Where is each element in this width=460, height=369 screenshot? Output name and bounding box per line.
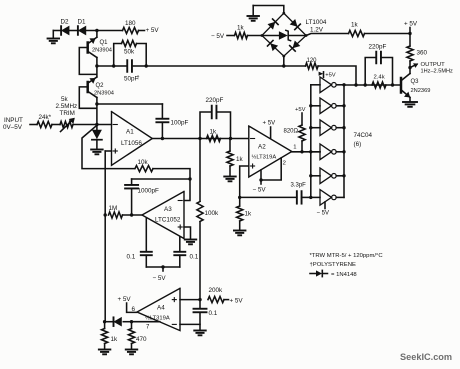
- svg-text:2N2369: 2N2369: [411, 88, 431, 94]
- ground (top-left clamp): [48, 31, 60, 44]
- wire: D1 to node A (Q1 emitter / 180 ohm): [86, 30, 123, 32]
- op-amp A4 1/2 LT319A: [137, 288, 180, 330]
- resistor 120 (from bridge bottom): [284, 58, 356, 85]
- resistor 180: [123, 20, 139, 34]
- svg-text:0.1: 0.1: [127, 254, 136, 261]
- junction dots at bridge corners: [261, 12, 308, 58]
- label -5V (A3 supply): [153, 275, 167, 282]
- junction: input rail row 5: [309, 174, 312, 177]
- junction: inverter input rail bottom: [309, 196, 312, 199]
- ground at clamp diode: [91, 150, 103, 155]
- wire: A3 V- decoupling left leg: [145, 218, 147, 252]
- diode D1: [78, 19, 87, 35]
- svg-text:+5V: +5V: [325, 72, 336, 78]
- wire: 74C04 output rail: [343, 85, 345, 198]
- wire + label: +5V to A2 V+ pin: [263, 119, 277, 138]
- junction: 1k right / 1k-to-ground: [229, 137, 232, 140]
- wire + label: +5V at 200k: [224, 298, 243, 305]
- svg-text:½LT319A: ½LT319A: [252, 154, 277, 161]
- wire: feedback loop from summing node down-left: [82, 125, 135, 168]
- junction: output rail row 4: [342, 150, 345, 153]
- svg-text:(6): (6): [354, 141, 362, 148]
- note: TRW resistor: [310, 253, 384, 259]
- svg-text:SeekIC.com: SeekIC.com: [400, 352, 452, 362]
- ground below 470: [126, 350, 138, 355]
- bridge diode (bottom-right, 1N4148): [290, 41, 301, 52]
- junction: A3 inverting node: [188, 177, 191, 180]
- label -5V (bridge): [211, 33, 225, 40]
- inverter U1f 74C04 gate 6: [311, 190, 344, 206]
- junction at 50k/50pF right: [145, 64, 148, 67]
- junction: threshold node: [198, 298, 201, 301]
- svg-text:+ 5V: + 5V: [404, 21, 418, 28]
- junction: pin2/-5V: [259, 178, 262, 181]
- svg-text:+ 5V: + 5V: [146, 27, 160, 34]
- svg-text:820Ω: 820Ω: [284, 129, 299, 135]
- svg-text:200k: 200k: [209, 287, 224, 294]
- wire: A3 non-inverting input to ground: [184, 227, 191, 239]
- svg-text:50k: 50k: [124, 49, 135, 56]
- wire: input line: [30, 124, 37, 126]
- svg-text:D2: D2: [61, 19, 70, 26]
- ground below 1k: [99, 350, 111, 355]
- svg-text:10k: 10k: [138, 159, 149, 166]
- svg-text:− 5V: − 5V: [317, 210, 330, 216]
- svg-text:INPUT: INPUT: [4, 117, 23, 124]
- svg-text:1k: 1k: [351, 22, 359, 29]
- wire: 24k to 5k trim: [52, 124, 60, 126]
- svg-text:1.2V: 1.2V: [310, 26, 324, 33]
- resistor 1k (feedback rail load): [102, 322, 119, 349]
- resistor 200k: [208, 287, 224, 303]
- junction: A3 output / 1000pF: [130, 213, 133, 216]
- svg-text:2N3904: 2N3904: [92, 48, 112, 54]
- wire: A4 + input to threshold node: [180, 299, 200, 301]
- wire: +5V rail top right: [306, 34, 348, 36]
- svg-text:74C04: 74C04: [354, 132, 373, 139]
- svg-text:†: †: [137, 75, 140, 81]
- svg-text:1000pF: 1000pF: [138, 188, 160, 195]
- svg-text:− 5V: − 5V: [153, 275, 167, 282]
- resistor 100k (A1 output to A4 threshold): [197, 139, 219, 300]
- svg-text:180: 180: [125, 20, 136, 27]
- junction: 220pF left: [364, 83, 367, 86]
- transistor Q2 2N3904: [88, 66, 114, 104]
- wire: A2 non-inverting feedback loop: [240, 166, 249, 197]
- junction: node C (Q2 collector): [95, 102, 98, 105]
- svg-text:− 5V: − 5V: [253, 187, 267, 194]
- svg-text:1k: 1k: [245, 211, 253, 218]
- wire: A1 output line: [152, 138, 249, 140]
- label OUTPUT 1Hz-2.5MHz: [421, 62, 454, 75]
- svg-text:100pF: 100pF: [171, 120, 189, 127]
- ground at A3 non-inverting input: [185, 240, 197, 245]
- junction: +5V node: [408, 32, 411, 35]
- svg-text:1k: 1k: [236, 156, 244, 163]
- junction: summing node: [95, 123, 98, 126]
- svg-text:220pF: 220pF: [369, 44, 387, 51]
- svg-text:2N3904: 2N3904: [94, 90, 114, 96]
- svg-text:2.5MHz: 2.5MHz: [56, 103, 78, 110]
- wire: 1k to +5V node: [365, 33, 411, 35]
- capacitor 50pF (polystyrene): [114, 60, 147, 82]
- svg-text:+5V: +5V: [295, 107, 306, 113]
- watermark SeekIC.com: [400, 352, 452, 362]
- wire: A3 V- decoupling right leg: [179, 237, 181, 252]
- ground at A4 - input / 0.1: [194, 331, 206, 336]
- transistor Q1 2N3904: [88, 31, 112, 67]
- svg-text:D1: D1: [78, 19, 87, 26]
- svg-text:1k: 1k: [111, 336, 119, 343]
- svg-text:OUTPUT: OUTPUT: [421, 62, 446, 68]
- wire: A2 pin 2 to -5V: [261, 158, 286, 184]
- junction: input rail row4: [309, 150, 312, 153]
- inverter U1d 74C04 gate 4: [311, 144, 344, 160]
- wire: A4 inverting input to ground leg: [180, 323, 200, 325]
- inverter U1c 74C04 gate 3: [311, 120, 344, 136]
- svg-text:A2: A2: [258, 144, 266, 151]
- op-amp A2 1/2 LT319A: [249, 126, 292, 177]
- wire: 74C04 input rail: [310, 85, 312, 198]
- diode bridge frame: [262, 13, 306, 56]
- inverter U1a 74C04 gate 1: [311, 77, 344, 93]
- wire + labels: +5V / pin 6 at A4: [118, 296, 137, 313]
- ground at bridge top: [247, 16, 259, 21]
- junction: 220pF right / Q3 base: [391, 83, 394, 86]
- wire: Q1 base loop to node B: [79, 48, 96, 75]
- wire: D2 to D1: [69, 30, 78, 32]
- capacitor 220pF (across 2.4k): [365, 44, 392, 86]
- wire + label: -5V at 74C04: [317, 202, 330, 216]
- wire: 74C04 outputs to 2.4k line: [344, 84, 401, 86]
- wire + label: +5V at 74C04: [319, 72, 336, 79]
- wire: A1 non-inverting rail: [105, 151, 111, 322]
- resistor 10k (to A3 inverting input): [135, 159, 153, 172]
- junction: -5V stub: [161, 265, 164, 268]
- ground below 1k: [224, 177, 236, 182]
- junction: A1 output / 100pF: [161, 137, 164, 140]
- svg-text:A3: A3: [164, 206, 172, 213]
- wire: 3.3pF feedback line: [240, 196, 297, 198]
- op-amp A3 LTC1052: [142, 192, 184, 239]
- wire: node C to summing node: [96, 104, 98, 125]
- resistor 1k to ground (A2 input bias): [227, 139, 244, 176]
- wire: 1000pF top rail: [132, 178, 190, 180]
- wire: 1M to A3 output: [123, 214, 143, 216]
- junction: feedback rail bottom: [103, 320, 106, 323]
- wire: A3 inverting input stub: [184, 179, 190, 201]
- junction: output rail row 2: [342, 104, 345, 107]
- wire: -5V to bridge left: [227, 35, 234, 37]
- svg-text:*TRW MTR-5/ + 120ppm/°C: *TRW MTR-5/ + 120ppm/°C: [310, 253, 384, 259]
- svg-text:470: 470: [136, 336, 147, 343]
- svg-text:Q3: Q3: [411, 79, 420, 85]
- svg-text:6: 6: [132, 306, 136, 313]
- svg-text:LTC1052: LTC1052: [155, 216, 181, 223]
- reference LT1004 1.2V (bridge center): [262, 19, 327, 41]
- svg-text:120: 120: [307, 58, 318, 64]
- svg-text:TRIM: TRIM: [60, 110, 75, 117]
- diode 1N4148 (A4 output): [105, 317, 132, 326]
- svg-text:360: 360: [417, 50, 428, 57]
- svg-text:= 1N4148: = 1N4148: [331, 272, 357, 278]
- svg-text:A1: A1: [126, 129, 134, 136]
- svg-text:1k: 1k: [210, 129, 218, 136]
- legend: 1N4148 diode symbol: [310, 270, 357, 278]
- ground at Q3 emitter: [403, 102, 417, 107]
- resistor 50k (parallel box): [114, 40, 147, 66]
- junction: output rail row 1: [342, 83, 345, 86]
- wire + arrow: OUTPUT: [410, 63, 418, 68]
- svg-text:2.4k: 2.4k: [374, 75, 385, 81]
- junction: 120 ohm tap: [354, 83, 357, 86]
- junction: 820 / A2 output: [300, 150, 303, 153]
- clamp diode at summing node (1N4148): [92, 125, 102, 149]
- resistor 1k (A2 + to ground): [237, 197, 252, 229]
- wire: 1k to bridge left corner: [248, 35, 262, 37]
- capacitor 0.1 (right): [174, 252, 198, 267]
- svg-text:220pF: 220pF: [206, 97, 224, 104]
- junction: input rail row 2: [309, 104, 312, 107]
- diode D2: [61, 19, 70, 35]
- junction: output rail row 3: [342, 126, 345, 129]
- svg-text:0.1: 0.1: [190, 254, 199, 261]
- resistor 1k (A1 output series): [207, 129, 221, 142]
- svg-text:0.1: 0.1: [209, 310, 218, 317]
- junction: 470 node: [130, 320, 133, 323]
- svg-text:1Hz–2.5MHz: 1Hz–2.5MHz: [421, 69, 454, 75]
- svg-text:0V–5V: 0V–5V: [3, 124, 23, 131]
- wire: 3.3pF to inverter input rail: [302, 196, 311, 198]
- capacitor 3.3pF: [291, 183, 307, 204]
- wire + label: +5V (output stage): [404, 21, 418, 34]
- label -5V (A2): [253, 187, 267, 194]
- svg-text:LT1004: LT1004: [306, 19, 327, 26]
- bridge diode (bottom-left, 1N4148): [267, 40, 278, 51]
- resistor 1k (bridge to -5V): [235, 25, 248, 39]
- bridge diode (top-right, 1N4148): [290, 19, 301, 30]
- resistor 1k (bridge to +5V): [349, 22, 365, 37]
- note: polystyrene: [310, 262, 356, 268]
- capacitor 220pF (across 1k, polystyrene): [200, 97, 231, 139]
- junction: bridge bottom node: [282, 64, 285, 67]
- svg-text:+ 5V: + 5V: [230, 298, 244, 305]
- svg-text:1: 1: [293, 145, 296, 151]
- wire: A2 output to inverter input rail (pin 1): [292, 145, 320, 152]
- svg-text:+ 5V: + 5V: [118, 296, 132, 303]
- resistor 2.4k: [372, 75, 386, 89]
- resistor 24k (TRW MTR-5): [37, 114, 52, 128]
- wire: -5V rail under A3: [146, 267, 180, 271]
- junction: A2 + node: [238, 196, 241, 199]
- wire: trim to summing node: [73, 124, 97, 126]
- junction: output rail row 5: [342, 174, 345, 177]
- svg-text:1M: 1M: [109, 205, 118, 212]
- capacitor 1000pF (A3 integrator): [125, 179, 159, 215]
- resistor 360 (Q3 collector): [407, 34, 428, 68]
- svg-text:½LT319A: ½LT319A: [145, 314, 170, 321]
- junction: Q3 collector / output node: [408, 66, 411, 69]
- transistor Q3 2N2369: [401, 68, 430, 101]
- wire: charge-dispense rail to diode bridge bottom: [146, 65, 284, 67]
- capacitor 0.1 (threshold filter): [194, 300, 218, 330]
- svg-text:100k: 100k: [205, 210, 220, 217]
- wire: top-left ground rail to D2: [53, 30, 61, 32]
- svg-text:− 5V: − 5V: [211, 33, 225, 40]
- svg-text:Q1: Q1: [100, 40, 109, 46]
- wire: node B to 50pF/50k network: [97, 65, 114, 67]
- wire: A4 output (pin 7) line: [132, 322, 160, 331]
- capacitor 100pF (A1 feedback): [97, 104, 189, 139]
- ground below A2 + 1k: [234, 231, 246, 236]
- junction at 50k/50pF left: [112, 64, 115, 67]
- wire: bridge top corner to ground: [253, 6, 284, 16]
- bridge diode (top-left, 1N4148): [268, 19, 279, 30]
- svg-text:LT1056: LT1056: [121, 140, 142, 147]
- inverter U1b 74C04 gate 2: [311, 98, 344, 114]
- inverter U1e 74C04 gate 5: [311, 168, 344, 184]
- wire + label: +5V supply at 180: [139, 27, 160, 34]
- svg-text:1k: 1k: [237, 25, 245, 32]
- trimpot 5k 2.5MHz TRIM: [56, 96, 78, 132]
- junction: A1 output / 220pF box left: [198, 137, 201, 140]
- junction: input rail row 3: [309, 126, 312, 129]
- resistor 1M: [109, 205, 123, 218]
- resistor 470: [128, 322, 147, 349]
- svg-text:+ 5V: + 5V: [263, 119, 277, 126]
- resistor 820 ohm (A2 pull-up): [284, 107, 306, 152]
- capacitor 0.1 (left): [127, 252, 152, 267]
- junction: node B (Q1/Q2): [95, 64, 98, 67]
- wire: Q2 base loop to node C: [79, 87, 96, 108]
- label 74C04 (6): [354, 132, 373, 148]
- op-amp A1 LT1056: [112, 112, 153, 166]
- label INPUT 0V-5V: [3, 117, 23, 131]
- junction: node A: [95, 29, 98, 32]
- svg-text:5k: 5k: [61, 96, 69, 103]
- wire: 10k to A3 input node: [153, 169, 190, 179]
- svg-text:24k*: 24k*: [39, 114, 52, 121]
- junction: bridge bottom corner: [283, 56, 285, 66]
- svg-text:A4: A4: [157, 305, 165, 312]
- svg-text:2: 2: [283, 161, 286, 167]
- wire: summing node to A1 inverting input: [97, 124, 112, 126]
- junction: 1M node: [104, 213, 107, 216]
- svg-text:3.3pF: 3.3pF: [291, 183, 307, 189]
- svg-text:†POLYSTYRENE: †POLYSTYRENE: [310, 262, 356, 268]
- svg-text:Q2: Q2: [96, 83, 105, 89]
